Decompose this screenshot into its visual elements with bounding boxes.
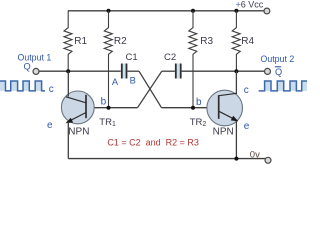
node: TR2 emitter junction on 0v rail [234,157,238,161]
svg-text:R2: R2 [114,36,127,47]
transistor TR2 [207,71,243,158]
svg-text:b: b [101,97,107,108]
resistor R4 [232,11,240,71]
Q output terminal [33,68,39,74]
wire: Q terminal to TR1 collector node to C1 left plate [39,70,121,72]
svg-text:c: c [49,84,54,95]
node: TR1 collector junction [66,69,70,73]
0v terminal [265,157,271,163]
svg-text:Q: Q [275,67,282,77]
svg-text:Output 2: Output 2 [261,54,295,64]
waveform at output Q [0,81,45,91]
svg-text:R3: R3 [200,36,213,47]
Q-bar output terminal [265,68,271,74]
node: rail junction R3 [191,9,195,13]
transistor TR1 [61,71,94,158]
0v rail [68,158,265,160]
wire: crossover diagonal C1 to TR2 base [139,71,162,108]
svg-text:e: e [244,121,250,132]
svg-text:Q: Q [24,61,31,71]
svg-text:C1: C1 [126,52,138,63]
svg-text:NPN: NPN [213,127,234,138]
svg-text:b: b [196,97,202,108]
node: rail junction R4 [234,9,238,13]
svg-text:NPN: NPN [68,126,89,137]
svg-text:+6 Vcc: +6 Vcc [236,0,264,10]
svg-text:R4: R4 [241,36,254,47]
svg-text:0v: 0v [250,149,260,160]
node: rail junction R2 [107,9,111,13]
resistor R3 [189,11,197,108]
wire: C1 right plate to crossover top-left [127,70,139,72]
svg-text:B: B [130,76,136,86]
node: TR2 base junction [191,106,195,110]
node: TR1 base junction [107,106,111,110]
resistor R1 [64,11,72,71]
resistor R2 [104,11,112,108]
svg-text:C1 = C2 and R2 = R3: C1 = C2 and R2 = R3 [107,138,199,148]
capacitor C1 [121,64,128,79]
svg-text:e: e [47,120,53,131]
wire: crossover diagonal C2 to TR1 base [138,71,162,108]
wire: TR2 base line [162,107,219,109]
node: TR2 collector junction [234,69,238,73]
svg-text:C2: C2 [164,52,176,63]
capacitor C2 [175,64,182,79]
wire: TR1 base line [86,107,138,109]
wire: TR2 collector node to Q-bar terminal [236,70,264,72]
svg-text:c: c [244,85,249,96]
svg-text:A: A [112,77,119,87]
+6 Vcc terminal [264,8,270,14]
svg-text:R1: R1 [74,36,87,47]
+6V supply rail [68,10,264,12]
wire: crossover top-right to C2 left plate [162,70,175,72]
wire: C2 right plate to TR2 collector node [182,70,237,72]
waveform at output Q-bar [259,81,307,91]
